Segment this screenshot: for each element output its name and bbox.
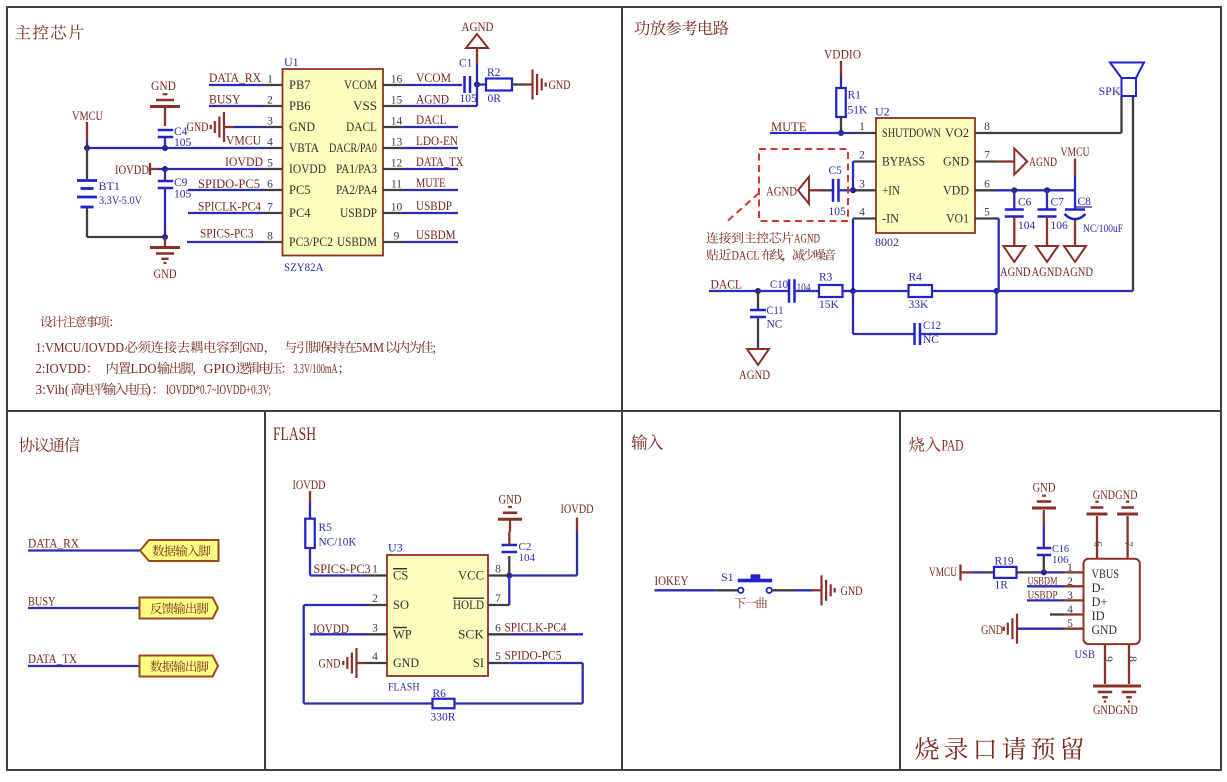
svg-text:FLASH: FLASH <box>273 424 316 445</box>
designator C5 <box>829 165 843 177</box>
wire SPK right leg <box>1132 96 1134 291</box>
dashed highlight box <box>759 149 848 221</box>
net label SPIDO-PC5 <box>198 177 260 191</box>
wire R1 bottom <box>840 117 842 133</box>
power port VMCU right <box>1061 145 1090 190</box>
node C4 junction <box>162 145 168 151</box>
svg-text:GND: GND <box>319 657 341 671</box>
svg-text:6: 6 <box>1092 541 1104 547</box>
svg-text:AGND: AGND <box>1029 155 1057 169</box>
svg-text:8: 8 <box>267 231 273 243</box>
svg-text:IOVDD: IOVDD <box>289 162 326 176</box>
speaker SPK <box>1110 63 1144 97</box>
svg-text:6: 6 <box>984 178 990 190</box>
svg-text:5: 5 <box>984 207 990 219</box>
designator S1 <box>721 570 734 584</box>
svg-text:10: 10 <box>391 202 403 214</box>
note line2 <box>36 361 342 376</box>
power port VDDIO <box>824 48 861 89</box>
USB shield pin9 <box>1093 644 1117 701</box>
svg-text:SO: SO <box>393 598 409 612</box>
svg-text:IOVDD: IOVDD <box>115 163 149 177</box>
svg-text:GND: GND <box>841 584 863 598</box>
svg-text:DATA_TX: DATA_TX <box>416 155 464 169</box>
designator C4 <box>174 126 188 138</box>
svg-text:SPK: SPK <box>1099 84 1121 98</box>
wire USBDM <box>403 241 458 243</box>
resistor R4 <box>909 285 933 297</box>
svg-text:PC5: PC5 <box>289 183 311 197</box>
USB pin stubs <box>1064 572 1084 628</box>
svg-text:PB6: PB6 <box>289 99 311 113</box>
power port AGND C7 <box>1032 246 1063 279</box>
ground GND top <box>150 79 180 126</box>
svg-text:104: 104 <box>797 282 811 294</box>
ground GND above C16 <box>1032 481 1056 509</box>
label GND pin3 <box>187 120 209 134</box>
designator R4 <box>909 272 923 284</box>
svg-text:VMCU: VMCU <box>1061 145 1090 159</box>
svg-text:DACL: DACL <box>732 249 760 263</box>
net label USBDP <box>416 199 452 213</box>
port flag 数据输出脚 <box>140 656 219 677</box>
wire HOLD up <box>508 576 510 606</box>
value C10 104 <box>797 282 811 294</box>
svg-text:R3: R3 <box>819 272 833 284</box>
wire MUTE <box>770 132 853 134</box>
svg-text:DATA_TX: DATA_TX <box>28 652 77 666</box>
svg-text:GND: GND <box>1115 488 1137 502</box>
svg-text:AGND: AGND <box>1032 265 1063 279</box>
svg-text:6: 6 <box>267 179 273 191</box>
svg-text:2: 2 <box>267 95 273 107</box>
title 烧入PAD <box>909 437 964 455</box>
svg-text:LDO-EN: LDO-EN <box>416 134 458 148</box>
net label USBDM pad <box>1028 576 1058 588</box>
chip U2 <box>876 118 975 233</box>
capacitor C7 <box>1038 190 1057 246</box>
svg-text:PC3/PC2: PC3/PC2 <box>289 235 333 249</box>
svg-text:GND: GND <box>151 79 176 93</box>
wire SCK <box>509 633 583 635</box>
note 烧录口请预留 <box>915 737 1083 760</box>
svg-text:8: 8 <box>495 564 501 576</box>
svg-text:D-: D- <box>1092 581 1105 595</box>
resistor R6 <box>433 699 455 709</box>
wire DACL <box>403 126 458 128</box>
label GNDGND top <box>1093 488 1138 502</box>
svg-text:ID: ID <box>1092 609 1105 623</box>
wire SI <box>509 662 582 664</box>
net label MUTE <box>416 176 446 190</box>
svg-text:1:VMCU/IOVDD: 1:VMCU/IOVDD <box>36 340 125 355</box>
net label USBDP pad <box>1028 590 1058 602</box>
connector USB <box>1084 559 1140 644</box>
svg-text:SPICS-PC3: SPICS-PC3 <box>200 227 254 241</box>
U1 pin stubs <box>263 85 403 242</box>
designator U3 <box>388 541 403 555</box>
resistor R1 <box>836 88 846 117</box>
wire SPIDO-PC5 <box>188 189 263 191</box>
node C6 <box>1011 187 1017 193</box>
svg-text:NC/10K: NC/10K <box>319 537 358 549</box>
svg-text:USBDM: USBDM <box>416 228 456 242</box>
svg-text:C11: C11 <box>767 305 784 317</box>
svg-text:U3: U3 <box>388 541 403 555</box>
node +IN <box>850 187 856 193</box>
svg-text:MUTE: MUTE <box>416 176 446 190</box>
svg-text:14: 14 <box>391 116 403 128</box>
wire R19 to node <box>1017 571 1065 573</box>
svg-text:USBDP: USBDP <box>416 199 452 213</box>
svg-text:1R: 1R <box>995 580 1009 592</box>
svg-text:13: 13 <box>391 137 403 149</box>
svg-text:33K: 33K <box>909 299 930 311</box>
chip U1 <box>283 69 384 256</box>
U3 pin stubs <box>366 576 509 664</box>
node -IN junction <box>850 288 856 294</box>
node VO1 junction <box>994 288 1000 294</box>
wire C12 right <box>920 291 997 334</box>
node C7 <box>1044 187 1050 193</box>
chip U3 <box>387 555 488 676</box>
svg-text:AGND: AGND <box>1063 265 1094 279</box>
svg-text:106: 106 <box>1051 220 1069 232</box>
svg-text:3:Vih(: 3:Vih( <box>36 382 70 397</box>
svg-text:SHUTDOWN: SHUTDOWN <box>882 126 941 140</box>
designator BT1 <box>99 179 120 193</box>
wire C10 to R3 <box>795 290 820 292</box>
svg-text:NC/100uF: NC/100uF <box>1083 223 1123 235</box>
svg-text:PC4: PC4 <box>289 206 311 220</box>
power port IOVDD flash-left <box>293 478 326 519</box>
value C5 105 <box>829 206 847 218</box>
designator C11 <box>767 305 784 317</box>
net label MUTE <box>771 120 807 134</box>
ground GND above C2 <box>498 493 522 532</box>
note header 设计注意事项 <box>41 316 113 328</box>
label 下一曲 <box>735 597 767 608</box>
USB shield pin8 <box>1117 644 1141 701</box>
svg-text:7: 7 <box>267 202 273 214</box>
svg-text:R6: R6 <box>433 688 447 700</box>
svg-text:R2: R2 <box>487 67 501 79</box>
ground GND bottom <box>150 237 180 281</box>
svg-text:AGND: AGND <box>462 20 494 34</box>
svg-text:U2: U2 <box>875 105 890 119</box>
value C6 104 <box>1018 220 1036 232</box>
net label DACL <box>416 113 447 127</box>
svg-text:GND: GND <box>289 120 315 134</box>
svg-text:C7: C7 <box>1051 197 1065 209</box>
svg-text:DATA_RX: DATA_RX <box>28 537 79 551</box>
svg-text:GND: GND <box>499 493 522 507</box>
port flag 反馈输出脚 <box>140 598 219 619</box>
node DACL-C11 <box>755 288 761 294</box>
wire VMCU net <box>87 147 263 149</box>
svg-text:105: 105 <box>174 189 192 201</box>
svg-text:USBDP: USBDP <box>340 206 377 220</box>
svg-text:11: 11 <box>391 179 402 191</box>
svg-text:DACL: DACL <box>711 278 743 292</box>
net label AGND pin15 <box>416 93 449 107</box>
svg-text:GND: GND <box>187 120 209 134</box>
svg-text:GND: GND <box>1092 623 1118 637</box>
svg-text:HOLD: HOLD <box>453 598 484 612</box>
wire DACL <box>709 290 758 292</box>
svg-text:8002: 8002 <box>875 235 899 249</box>
wire VCOM <box>403 84 462 86</box>
value C9 105 <box>174 189 192 201</box>
designator C6 <box>1018 197 1032 209</box>
designator C10 <box>770 279 788 291</box>
net label IOVDD wp <box>313 622 349 636</box>
wire DATA_RX <box>209 84 263 86</box>
power port VMCU <box>72 109 103 148</box>
resistor R3 <box>819 285 843 297</box>
U1 pin numbers <box>267 74 402 243</box>
svg-text:4: 4 <box>372 651 378 663</box>
title 输入 <box>631 434 663 450</box>
designator R6 <box>433 688 447 700</box>
svg-text:GND: GND <box>549 78 571 92</box>
wire USBDP <box>403 212 458 214</box>
value 3.3V-5.0V <box>99 193 142 207</box>
svg-text:15K: 15K <box>819 299 840 311</box>
svg-text:5: 5 <box>495 651 501 663</box>
svg-text:3.3V/100mA: 3.3V/100mA <box>294 361 338 376</box>
dashed pointer line <box>728 193 759 221</box>
svg-text:): ) <box>147 382 151 397</box>
net label DATA_TX port <box>28 652 77 666</box>
svg-text:7: 7 <box>1122 541 1134 547</box>
U2 pin names <box>882 126 969 226</box>
designator C12 <box>923 320 941 332</box>
svg-text:0R: 0R <box>488 93 502 105</box>
net label VCOM <box>416 71 451 85</box>
wire DATA_TX <box>403 168 458 170</box>
svg-text:GND: GND <box>243 340 264 355</box>
value C2 104 <box>519 552 536 564</box>
node GND junction <box>162 234 168 240</box>
USB shield pin7 <box>1117 502 1138 559</box>
svg-text:R19: R19 <box>995 556 1014 568</box>
ground pin3 GND <box>211 112 234 142</box>
wire R5 to pin1 <box>310 548 366 576</box>
svg-text:3.3V-5.0V: 3.3V-5.0V <box>99 193 142 207</box>
value R5 NC/10K <box>319 537 358 549</box>
svg-text:IOVDD: IOVDD <box>561 502 594 516</box>
svg-text:6: 6 <box>495 622 501 634</box>
svg-text:5: 5 <box>267 158 273 170</box>
svg-text:104: 104 <box>519 552 536 564</box>
designator SPK <box>1099 84 1121 98</box>
svg-text:AGND: AGND <box>416 93 449 107</box>
ground GND usb pin5 <box>981 614 1064 644</box>
wire DATA_TX port <box>28 665 140 667</box>
value C4 105 <box>174 137 192 149</box>
svg-text:12: 12 <box>391 158 403 170</box>
wire S1 to GND <box>772 589 822 591</box>
wire MUTE <box>403 189 458 191</box>
resistor R5 <box>305 519 315 548</box>
svg-text:GND: GND <box>1033 481 1056 495</box>
svg-text:R1: R1 <box>848 90 862 102</box>
title 协议通信 <box>19 437 80 452</box>
designator C7 <box>1051 197 1065 209</box>
svg-text:IOVDD*0.7~IOVDD+0.3V;: IOVDD*0.7~IOVDD+0.3V; <box>166 382 271 397</box>
designator R2 <box>487 67 501 79</box>
U3 pin names <box>393 569 484 671</box>
svg-text:1: 1 <box>372 564 378 576</box>
value R19 1R <box>995 580 1009 592</box>
svg-text:104: 104 <box>1018 220 1036 232</box>
svg-text:7: 7 <box>495 593 501 605</box>
svg-text:USB: USB <box>1075 647 1096 661</box>
node R19-C16 <box>1041 569 1047 575</box>
svg-text:BT1: BT1 <box>99 179 120 193</box>
wire AGND pin15 <box>403 105 477 107</box>
svg-text:D+: D+ <box>1092 595 1108 609</box>
svg-text:7: 7 <box>984 150 990 162</box>
svg-text:IOVDD: IOVDD <box>225 155 263 169</box>
wire DATA_RX port <box>28 549 140 551</box>
svg-text:GND: GND <box>1093 488 1115 502</box>
svg-text:8: 8 <box>984 121 990 133</box>
svg-text:IOKEY: IOKEY <box>655 574 689 588</box>
value C16 106 <box>1052 554 1069 566</box>
svg-text:3: 3 <box>859 178 865 190</box>
svg-text:NC: NC <box>767 319 783 331</box>
svg-text:VCC: VCC <box>458 569 484 583</box>
svg-text:PA1/PA3: PA1/PA3 <box>336 162 377 176</box>
value R4 33K <box>909 299 930 311</box>
capacitor C11 <box>750 291 766 349</box>
net label VMCU pin4 <box>226 134 261 148</box>
net label SPICS-PC3 <box>200 227 254 241</box>
net label SPICS-PC3 flash <box>314 562 371 576</box>
svg-text:USBDM: USBDM <box>337 235 377 249</box>
value R3 15K <box>819 299 840 311</box>
net label SPICLK-PC4 <box>198 200 262 214</box>
svg-text:C5: C5 <box>829 165 843 177</box>
wire DACL to C10 <box>758 290 789 292</box>
svg-text:GND: GND <box>943 155 969 169</box>
node MUTE-R1 <box>838 130 844 136</box>
svg-text:PB7: PB7 <box>289 78 311 92</box>
wire ID stub <box>1050 613 1064 615</box>
svg-text:105: 105 <box>829 206 847 218</box>
value C12 NC <box>923 334 939 346</box>
wire battery bottom <box>87 208 165 237</box>
svg-text:SZY82A: SZY82A <box>284 260 324 274</box>
power port AGND C8 <box>1063 246 1094 279</box>
U2 pin numbers <box>859 121 990 219</box>
wire VO2 <box>995 96 1122 133</box>
svg-text:VBTA: VBTA <box>289 141 319 155</box>
node VCC <box>506 573 512 579</box>
title FLASH <box>273 424 316 445</box>
svg-text:IOVDD: IOVDD <box>313 622 349 636</box>
wire R2 to GND <box>512 83 533 85</box>
capacitor C6 <box>1005 190 1024 246</box>
svg-text:SCK: SCK <box>458 628 484 642</box>
svg-text:2:IOVDD: 2:IOVDD <box>36 361 87 376</box>
ground GND flash pin4 <box>319 648 367 678</box>
svg-text:330R: 330R <box>431 712 456 724</box>
capacitor C9 <box>158 169 174 237</box>
svg-text:DACL: DACL <box>416 113 447 127</box>
svg-text:GND: GND <box>1116 703 1138 717</box>
net label DATA_TX <box>416 155 464 169</box>
wire USBDP pad <box>1027 599 1064 601</box>
svg-text:VMCU: VMCU <box>72 109 103 123</box>
svg-text:VBUS: VBUS <box>1092 567 1120 581</box>
designator C9 <box>174 177 188 189</box>
svg-text:GND: GND <box>393 656 419 670</box>
net label LDO-EN <box>416 134 458 148</box>
resistor R19 <box>994 567 1017 578</box>
note 连接到主控芯片AGND <box>706 232 820 246</box>
value R2 0R <box>488 93 502 105</box>
title 功放参考电路 <box>635 20 729 35</box>
svg-text:9: 9 <box>394 231 400 243</box>
svg-text:SI: SI <box>473 656 484 670</box>
net label IOVDD pin5 <box>225 155 263 169</box>
designator C16 <box>1052 543 1069 555</box>
ground GND right <box>533 70 571 100</box>
capacitor C8 <box>1065 190 1086 246</box>
wire WP <box>310 633 366 635</box>
svg-text:GND: GND <box>981 623 1003 637</box>
svg-text:16: 16 <box>391 74 403 86</box>
USB shield pin6 <box>1087 502 1108 559</box>
svg-text:15: 15 <box>391 95 403 107</box>
svg-text:CS: CS <box>393 569 408 583</box>
wire VCC to IOVDD <box>509 518 577 576</box>
designator USB <box>1075 647 1096 661</box>
wire -IN down <box>852 219 854 292</box>
note 贴近DACL布线 <box>706 249 835 263</box>
wire C12 left <box>853 291 915 334</box>
svg-text:AGND: AGND <box>766 185 797 199</box>
battery BT1 <box>77 181 97 208</box>
net label IOKEY <box>655 574 689 588</box>
net label DATA_RX <box>209 71 261 85</box>
wire USBDM pad <box>1027 585 1064 587</box>
note line3 <box>36 382 272 397</box>
svg-text:SPIDO-PC5: SPIDO-PC5 <box>198 177 260 191</box>
svg-text:PA2/PA4: PA2/PA4 <box>336 183 378 197</box>
svg-text:8: 8 <box>1126 656 1138 662</box>
value C7 106 <box>1051 220 1069 232</box>
svg-text:PAD: PAD <box>942 438 964 455</box>
value FLASH <box>388 680 420 694</box>
svg-text:51K: 51K <box>848 105 869 117</box>
svg-text:AGND: AGND <box>794 232 820 246</box>
svg-text:GND: GND <box>1093 703 1115 717</box>
svg-text:DATA_RX: DATA_RX <box>209 71 261 85</box>
note line1 <box>36 340 437 355</box>
net label USBDM <box>416 228 456 242</box>
svg-text:GND: GND <box>154 267 177 281</box>
svg-text:NC: NC <box>923 334 939 346</box>
USB pin names <box>1092 567 1120 637</box>
svg-text:;: ; <box>433 340 437 355</box>
svg-text:AGND: AGND <box>1000 265 1031 279</box>
svg-text:3: 3 <box>372 622 378 634</box>
power port AGND pin7 <box>995 149 1057 175</box>
